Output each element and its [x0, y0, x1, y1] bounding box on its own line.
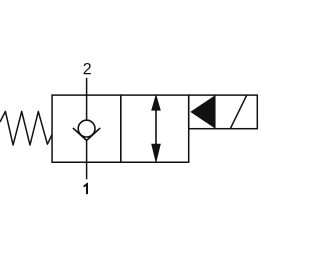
- proportional adjustment diagonal: [230, 95, 247, 129]
- port 2 line (top): [86, 78, 88, 121]
- valve position box 2 (right, flow position): [121, 95, 189, 162]
- check valve seat (V): [73, 128, 100, 140]
- check valve ball (circle): [78, 120, 95, 137]
- flow arrow head bottom: [151, 144, 161, 164]
- port label 1: [84, 183, 88, 194]
- port 1 line (bottom): [86, 139, 88, 179]
- solenoid armature triangle (filled): [190, 95, 215, 128]
- solenoid box: [189, 95, 258, 129]
- valve position box 1 (left, check valve position): [52, 95, 121, 162]
- flow arrow head top: [151, 94, 161, 111]
- spring (return spring, left side): [0, 111, 52, 145]
- port label 2: [84, 63, 91, 74]
- flow arrow shaft: [155, 104, 157, 150]
- solenoid divider: [214, 95, 216, 129]
